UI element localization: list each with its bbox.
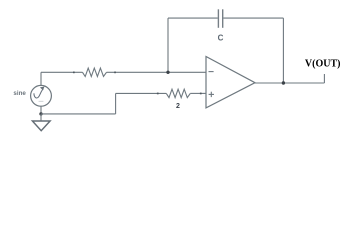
capacitor C — [218, 9, 222, 28]
wire inverting input left — [41, 71, 83, 73]
pin tick R1 left — [73, 72, 75, 74]
ground — [32, 121, 50, 131]
op-amp U1 — [206, 57, 255, 108]
wire top feedback right segment — [223, 17, 283, 19]
wire source bottom stub — [40, 106, 42, 114]
ground stub — [40, 114, 42, 121]
pin tick R2 right — [200, 93, 202, 95]
svg-text:C: C — [218, 34, 224, 43]
node junction ground — [39, 112, 42, 115]
wire feedback right vertical — [282, 18, 284, 83]
wire output stub up — [323, 74, 325, 83]
voltage source V1 — [31, 85, 52, 106]
wire output — [255, 82, 324, 84]
pin tick R2 left — [157, 93, 159, 95]
wire noninverting riser — [115, 93, 117, 114]
node junction output/feedback — [282, 81, 285, 84]
resistor R2 — [166, 89, 190, 97]
wire inverting input right — [107, 71, 207, 73]
svg-text:V(OUT): V(OUT) — [305, 58, 341, 69]
wire feedback left vertical — [167, 18, 169, 72]
wire ground horizontal — [41, 113, 116, 115]
wire top feedback left segment — [168, 17, 218, 19]
wire noninverting input right — [190, 92, 206, 94]
pin tick R1 right — [114, 72, 116, 74]
node junction feedback/input — [166, 71, 169, 74]
voltage source V1 riser — [40, 72, 42, 85]
svg-text:2: 2 — [176, 103, 180, 110]
svg-text:sine: sine — [13, 90, 26, 97]
resistor R1 — [83, 68, 107, 76]
wire noninverting input left — [116, 92, 167, 94]
